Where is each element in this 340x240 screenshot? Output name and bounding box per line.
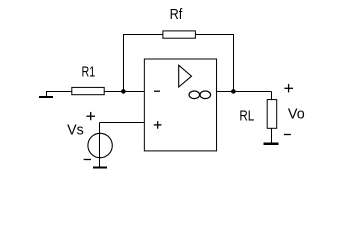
svg-text:R1: R1 [82,65,96,81]
svg-text:Rf: Rf [170,7,184,23]
svg-text:Vo: Vo [288,106,305,122]
svg-text:RL: RL [239,108,254,124]
svg-text:Vs: Vs [67,123,84,139]
